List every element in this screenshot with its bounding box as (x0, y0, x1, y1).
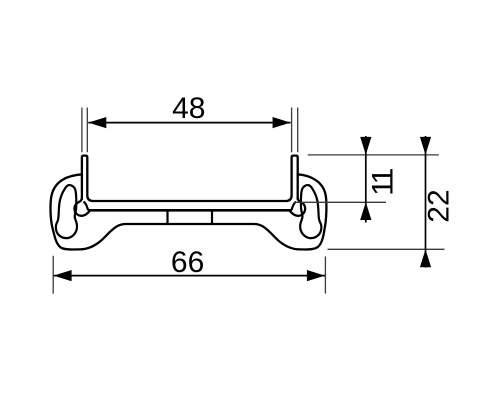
dim line 48 (88, 122, 290, 124)
extension line 66 right (324, 257, 326, 294)
svg-text:11: 11 (367, 168, 400, 195)
floor underside line (89, 209, 292, 212)
svg-text:22: 22 (423, 189, 456, 222)
arrow 66 left (54, 270, 72, 281)
svg-text:66: 66 (171, 246, 204, 279)
extension lines above left wall for dim 48 (82, 108, 87, 153)
extension line channel floor level for dim 11 (295, 201, 387, 203)
flange divider right (211, 210, 213, 224)
profile outer outline (left blob, bottom, right blob) (50, 174, 326, 249)
flange divider left (166, 210, 168, 224)
arrow 11 top (outside, pointing down) (360, 137, 371, 155)
left teardrop pocket (74, 198, 89, 216)
right teardrop pocket (290, 198, 305, 216)
arrow 66 right (307, 270, 325, 281)
dim line 66 (54, 275, 325, 277)
svg-text:48: 48 (172, 92, 205, 125)
arrow 11 bottom (outside, pointing up) (360, 202, 371, 220)
arrow 48 right (273, 117, 291, 128)
extension lines above right wall for dim 48 (292, 108, 298, 153)
arrow 22 top (outside, pointing down) (420, 137, 431, 155)
dim line 22 (425, 136, 427, 268)
arrow 22 bottom (outside, pointing up) (420, 249, 431, 267)
extension line top (wall top level) for dims 11 and 22 (308, 154, 439, 156)
channel U: left wall outer (82, 156, 298, 201)
arrow 48 left (88, 117, 106, 128)
extension line 66 left (52, 256, 54, 294)
right comma cutout (300, 185, 321, 238)
dim line 11 (365, 136, 367, 223)
left comma cutout (56, 185, 77, 238)
extension line profile bottom level for dim 22 (328, 248, 445, 250)
